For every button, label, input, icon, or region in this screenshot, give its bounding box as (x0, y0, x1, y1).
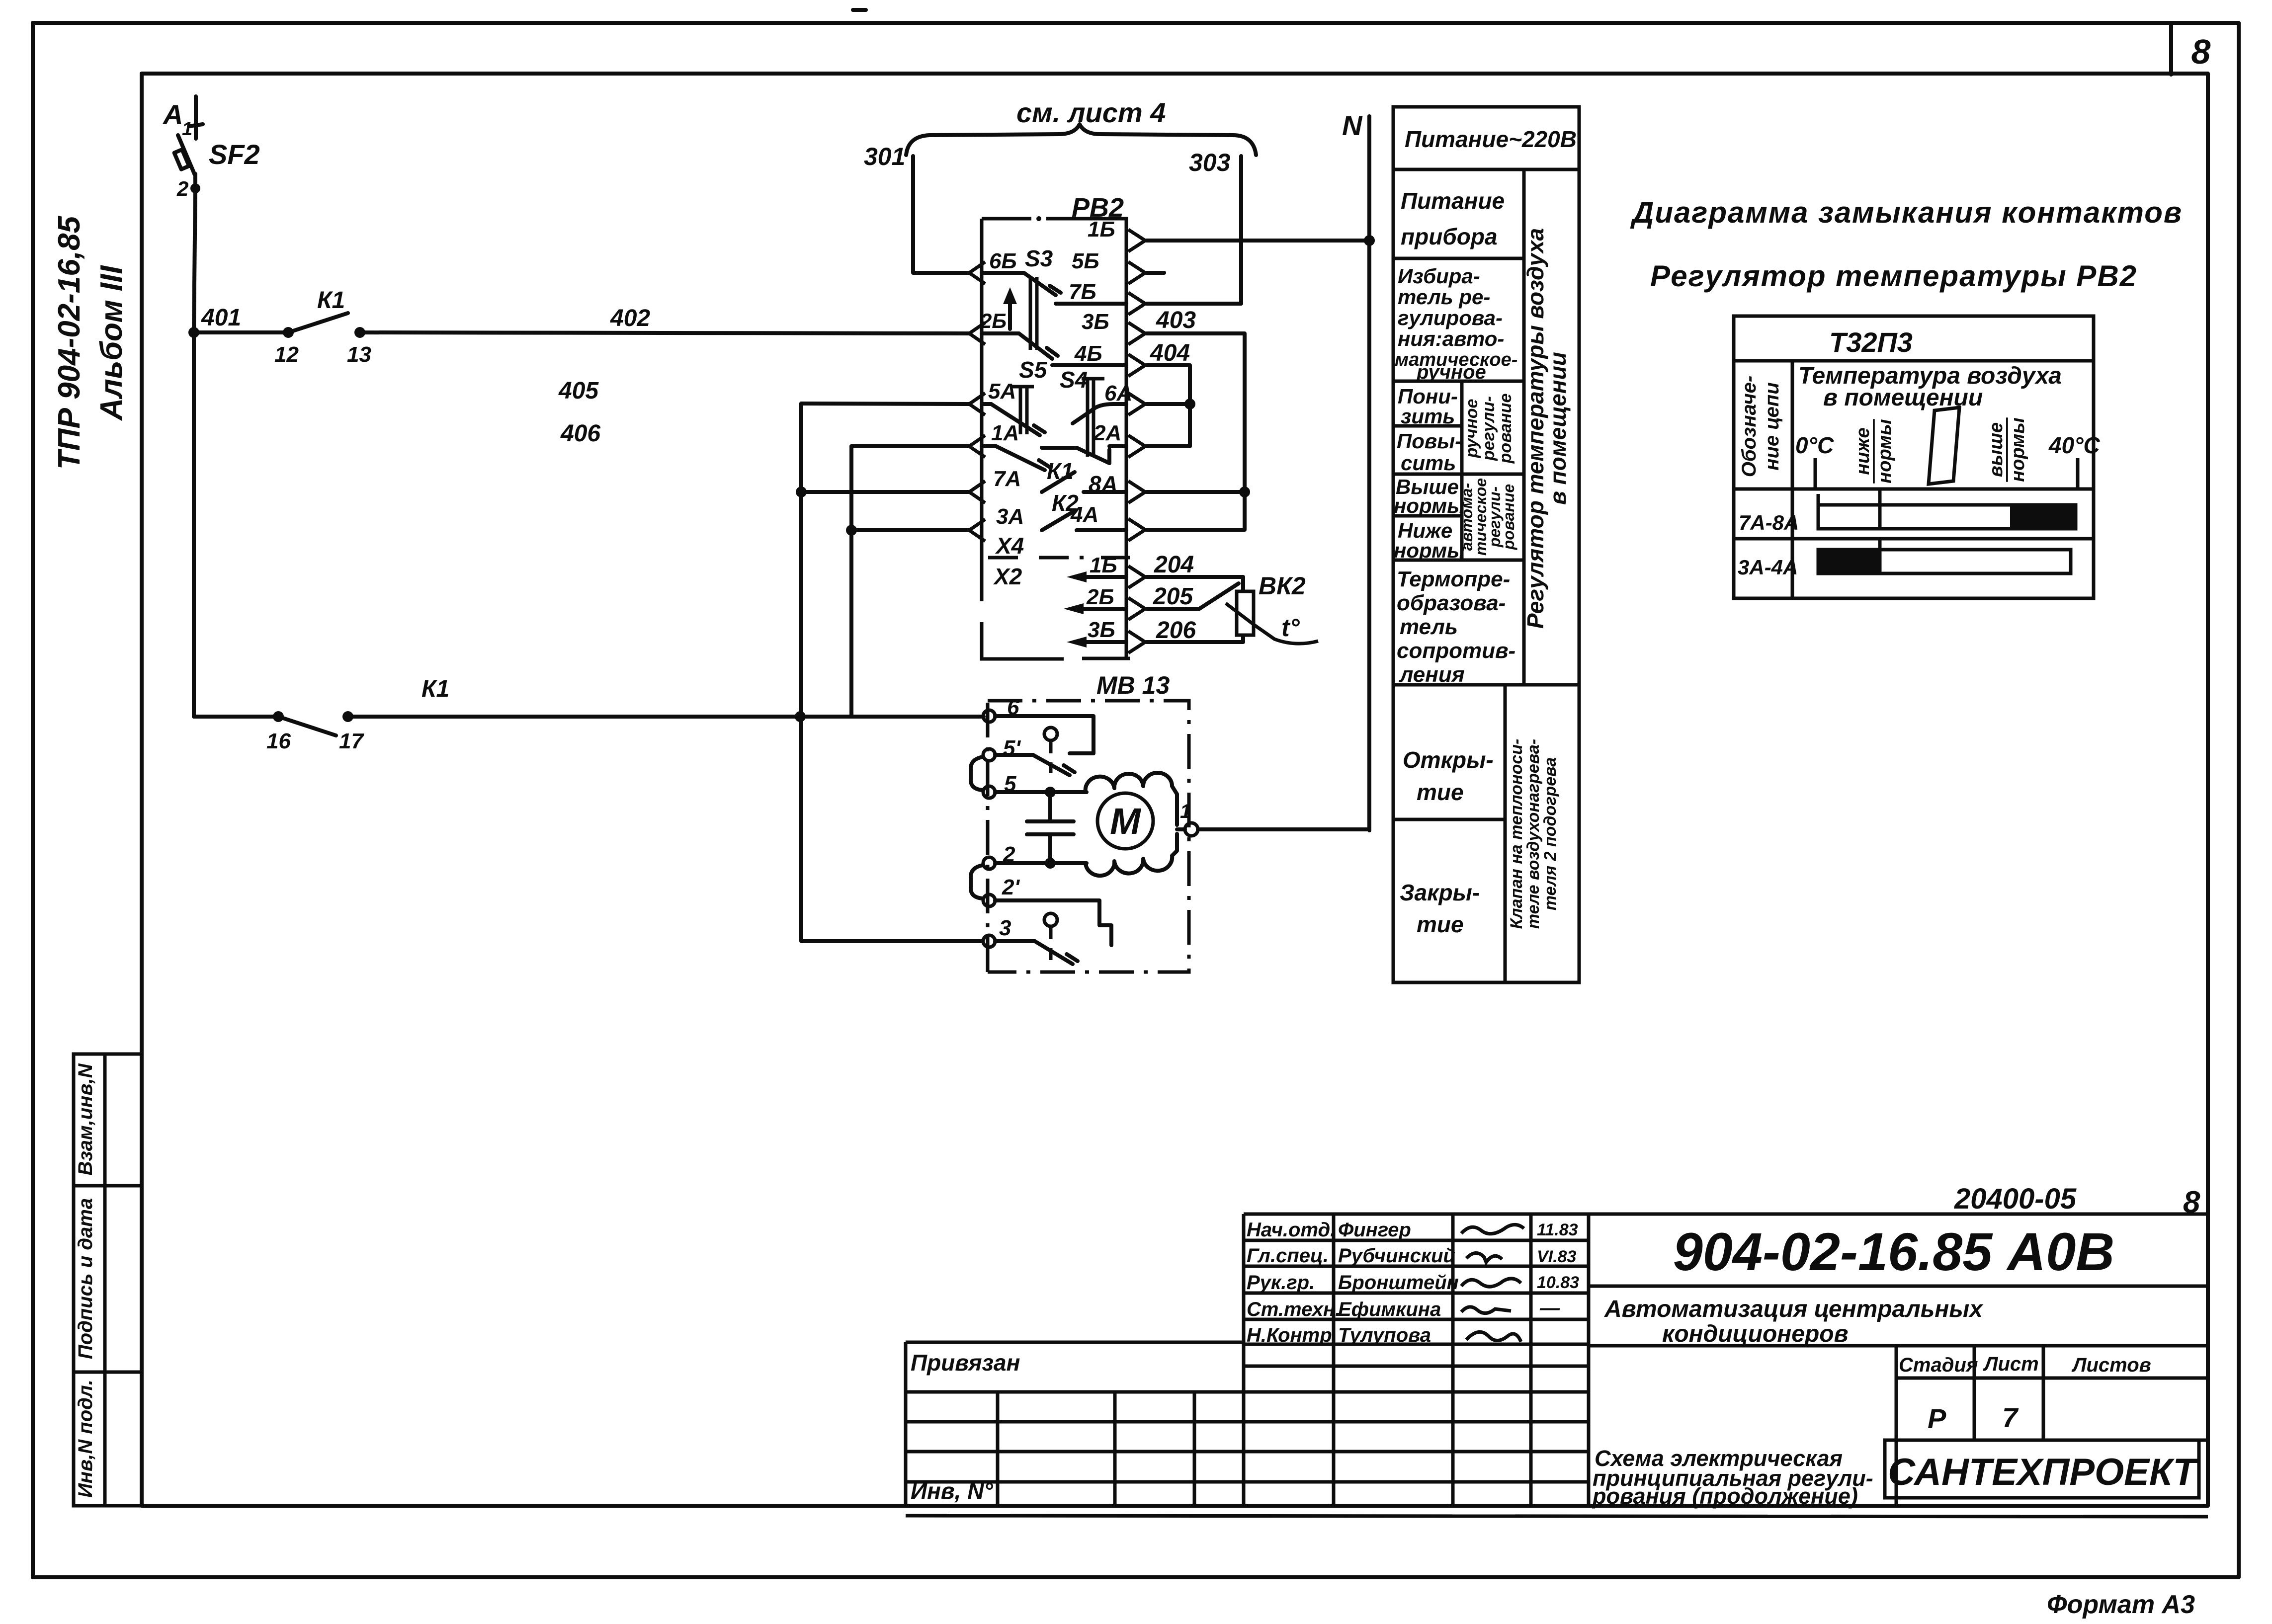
sheet number box top right (2169, 24, 2173, 75)
MV13 enclosure dash-dot (988, 701, 1189, 972)
node 16 (273, 711, 284, 722)
svg-text:2А: 2А (1093, 421, 1121, 445)
svg-text:1А: 1А (991, 421, 1019, 445)
svg-text:Взам,инв,N: Взам,инв,N (75, 1063, 96, 1175)
right side terminal arrows of P82 (1128, 230, 1145, 653)
handwritten signatures (1461, 1224, 1524, 1342)
svg-text:нормы: нормы (2008, 417, 2028, 482)
svg-text:Повы-: Повы- (1397, 429, 1462, 453)
node 12 (283, 327, 294, 338)
title block grid (906, 1214, 2208, 1517)
jumper 5'-5 (971, 757, 983, 790)
wire 7A (801, 490, 969, 494)
left side terminal arrows of P82 (969, 262, 985, 541)
brace over 301..303 (906, 124, 1256, 155)
svg-text:5А: 5А (988, 379, 1016, 404)
svg-text:6Б: 6Б (989, 249, 1017, 273)
upper switch actuator (1044, 728, 1057, 740)
svg-text:К1: К1 (421, 676, 449, 702)
svg-text:тель: тель (1400, 615, 1458, 639)
svg-text:нормы: нормы (1394, 494, 1465, 517)
svg-text:Регулятор температуры РВ2: Регулятор температуры РВ2 (1650, 259, 2137, 293)
contact K2 in P82 (1042, 511, 1126, 530)
svg-text:8: 8 (2191, 32, 2211, 71)
svg-text:ния:авто-: ния:авто- (1398, 327, 1504, 350)
svg-text:3А: 3А (996, 504, 1024, 529)
svg-text:301: 301 (864, 143, 905, 170)
svg-text:Р: Р (1928, 1403, 1946, 1434)
upper limit switch 5' contact (995, 755, 1075, 775)
svg-text:Инв, N°: Инв, N° (911, 1478, 993, 1504)
svg-text:1Б: 1Б (1088, 217, 1115, 242)
svg-text:Х2: Х2 (993, 564, 1022, 589)
wire from SF2 down to node 401 (194, 187, 195, 332)
terminal 3 (983, 935, 995, 947)
wire 401 to contact K1 (194, 330, 288, 334)
svg-text:205: 205 (1153, 583, 1193, 610)
node 401 junction (188, 327, 199, 338)
bar 3A-4A (1818, 539, 2071, 573)
svg-text:5Б: 5Б (1072, 249, 1099, 273)
svg-text:3Б: 3Б (1088, 618, 1115, 642)
left stamp table (74, 1054, 142, 1506)
svg-text:нормы: нормы (1394, 539, 1465, 562)
wire from 401 down to lower K1 branch (192, 332, 196, 717)
svg-text:Питание~220В: Питание~220В (1405, 126, 1577, 152)
svg-text:7А-8А: 7А-8А (1739, 511, 1799, 534)
svg-text:регули-: регули- (1479, 396, 1498, 461)
svg-text:2: 2 (176, 177, 188, 200)
terminal 5' (983, 749, 995, 761)
contact K1 in P82 (1042, 472, 1126, 492)
svg-text:S5: S5 (1019, 357, 1048, 383)
svg-text:МВ 13: МВ 13 (1096, 671, 1170, 699)
svg-text:17: 17 (339, 729, 364, 753)
svg-text:рование: рование (1496, 394, 1515, 464)
svg-text:Стадия: Стадия (1899, 1354, 1978, 1376)
svg-text:сопротив-: сопротив- (1397, 639, 1515, 663)
svg-text:ручное: ручное (1416, 361, 1486, 383)
svg-text:4А: 4А (1070, 502, 1098, 527)
svg-text:Гл.спец.: Гл.спец. (1247, 1245, 1329, 1267)
svg-text:303: 303 (1189, 149, 1231, 176)
svg-text:2Б: 2Б (1086, 585, 1114, 609)
wire 301 down to 6B (913, 156, 969, 273)
svg-text:теля 2 подогрева: теля 2 подогрева (1541, 757, 1560, 910)
switch S5 blade 5A (982, 404, 1045, 435)
node 17 (342, 711, 353, 722)
svg-text:S3: S3 (1025, 245, 1053, 271)
direction arrow (1008, 294, 1012, 329)
svg-text:Привязан: Привязан (911, 1350, 1020, 1376)
svg-text:904-02-16.85 А0В: 904-02-16.85 А0В (1673, 1221, 2115, 1282)
svg-text:—: — (1539, 1297, 1560, 1319)
thermistor BK2 (1226, 591, 1318, 644)
switch S5 handle (1012, 387, 1034, 434)
svg-text:16: 16 (266, 729, 291, 753)
svg-text:Клапан на теплоноси-: Клапан на теплоноси- (1507, 739, 1526, 929)
vertical net 405/7A down to node 3 (801, 404, 982, 941)
svg-text:Подпись и дата: Подпись и дата (75, 1198, 96, 1359)
svg-text:404: 404 (1150, 340, 1190, 366)
wire from 17 to motor node 6 (348, 715, 984, 719)
svg-text:6А: 6А (1104, 381, 1132, 406)
svg-text:ВК2: ВК2 (1259, 572, 1306, 600)
svg-text:Нач.отд.: Нач.отд. (1247, 1219, 1336, 1241)
svg-text:ручное: ручное (1462, 399, 1481, 459)
terminal 6 (983, 710, 995, 722)
svg-text:Рубчинский: Рубчинский (1338, 1245, 1455, 1267)
svg-text:4Б: 4Б (1074, 341, 1102, 366)
svg-text:405: 405 (558, 378, 599, 404)
switch S5 upper blade 2B-4B (982, 333, 1126, 365)
svg-text:Фингер: Фингер (1338, 1219, 1411, 1241)
svg-text:Обозначе-: Обозначе- (1738, 376, 1760, 478)
svg-text:Рук.гр.: Рук.гр. (1247, 1272, 1315, 1294)
svg-text:Избира-: Избира- (1398, 264, 1480, 288)
T32P3 diagram table (1734, 316, 2094, 598)
node 13 (354, 327, 365, 338)
svg-text:М: М (1110, 801, 1141, 842)
svg-text:кондиционеров: кондиционеров (1662, 1321, 1849, 1347)
svg-text:ТПР 904-02-16,85: ТПР 904-02-16,85 (52, 216, 86, 470)
svg-text:Формат А3: Формат А3 (2047, 1590, 2195, 1619)
wire to node 16 (194, 715, 278, 719)
svg-text:Н.Контр: Н.Контр (1247, 1324, 1332, 1346)
svg-text:Закры-: Закры- (1400, 880, 1480, 905)
terminal 2 (983, 857, 995, 869)
switch S3 blade and link (982, 273, 1126, 304)
svg-text:2': 2' (1002, 875, 1020, 899)
svg-text:403: 403 (1156, 307, 1196, 333)
svg-text:7: 7 (2002, 1402, 2019, 1433)
wire 404 (1146, 365, 1190, 446)
svg-text:10.83: 10.83 (1537, 1273, 1579, 1292)
svg-text:401: 401 (201, 305, 241, 331)
svg-text:САНТЕХПРОЕКТ: САНТЕХПРОЕКТ (1888, 1451, 2198, 1493)
right signal table (1393, 107, 1579, 982)
wire 8A junction (1146, 492, 1245, 530)
contact K1 lower blade (278, 717, 336, 735)
wire 5 to winding (995, 790, 1087, 794)
svg-text:Автоматизация центральных: Автоматизация центральных (1604, 1296, 1984, 1322)
svg-text:ние цепи: ние цепи (1761, 382, 1783, 470)
svg-text:Диаграмма замыкания контактов: Диаграмма замыкания контактов (1630, 196, 2183, 229)
svg-text:см. лист 4: см. лист 4 (1016, 97, 1166, 128)
svg-text:40°С: 40°С (2048, 432, 2101, 458)
svg-text:7А: 7А (993, 467, 1021, 491)
svg-text:тель ре-: тель ре- (1398, 285, 1490, 309)
svg-text:тие: тие (1417, 779, 1464, 805)
svg-text:20400-05: 20400-05 (1954, 1183, 2077, 1215)
svg-text:гулирова-: гулирова- (1398, 306, 1503, 329)
switch S4 handle (1082, 379, 1104, 457)
svg-text:ниже: ниже (1852, 427, 1873, 475)
svg-text:ления: ления (1399, 662, 1465, 687)
wire 403 (1146, 333, 1245, 492)
svg-text:К1: К1 (317, 287, 345, 314)
switch S4 blade 2A (1042, 446, 1126, 463)
svg-text:2Б: 2Б (980, 309, 1007, 332)
svg-text:сить: сить (1401, 451, 1456, 475)
motor windings upper (1086, 773, 1177, 825)
N line vertical (1367, 116, 1371, 830)
bar 7A-8A (1818, 489, 2076, 529)
wire node1 to N (1198, 827, 1369, 831)
svg-text:прибора: прибора (1401, 224, 1498, 249)
terminal 5 (983, 786, 995, 798)
svg-text:Бронштейн: Бронштейн (1338, 1272, 1459, 1294)
mechanical link S3-S5 (1030, 277, 1037, 350)
svg-text:402: 402 (610, 305, 650, 331)
terminal 1 (1177, 827, 1185, 831)
svg-text:13: 13 (347, 342, 371, 367)
terminal 2' (983, 894, 995, 906)
wire stub at A1 (189, 96, 203, 139)
svg-text:выше: выше (1986, 422, 2007, 477)
svg-text:Ефимкина: Ефимкина (1338, 1299, 1441, 1320)
svg-text:Т32П3: Т32П3 (1829, 326, 1913, 358)
vertical net 406/3A (849, 446, 853, 717)
svg-text:SF2: SF2 (209, 139, 260, 170)
svg-text:Ст.техн.: Ст.техн. (1247, 1299, 1341, 1320)
svg-text:N: N (1342, 110, 1363, 141)
lower switch actuator (1044, 913, 1057, 926)
svg-text:Питание: Питание (1401, 188, 1505, 214)
svg-text:Откры-: Откры- (1403, 747, 1494, 773)
svg-text:204: 204 (1154, 552, 1194, 578)
lower limit switch frame from 2' (995, 900, 1111, 945)
svg-text:11.83: 11.83 (1537, 1220, 1578, 1239)
wire 2 to winding (995, 861, 1087, 865)
connector row 3B to 206 (1067, 637, 1087, 648)
connector row 2B to 205 (1064, 603, 1084, 614)
setpoint parallelogram (1929, 407, 1959, 484)
svg-text:7Б: 7Б (1069, 280, 1096, 304)
svg-text:Альбом III: Альбом III (94, 265, 129, 421)
switch S4 blade 6A (1073, 404, 1126, 423)
svg-text:3Б: 3Б (1082, 310, 1109, 334)
svg-text:тие: тие (1417, 911, 1464, 937)
svg-text:3А-4А: 3А-4А (1738, 556, 1798, 579)
motor windings lower (1057, 834, 1177, 876)
wire 303 down to 7B (1146, 156, 1241, 304)
svg-text:зить: зить (1401, 405, 1455, 428)
contact K1 upper blade (288, 313, 348, 332)
wire 406 (851, 444, 969, 448)
connector row 1B to 204 (1067, 571, 1087, 582)
wire 405 (801, 404, 969, 404)
svg-text:1: 1 (1180, 801, 1191, 822)
wire 1B to N (1146, 239, 1369, 243)
wire 3A (851, 528, 969, 532)
motor M (1097, 793, 1153, 849)
switch S5 blade 1A (982, 446, 1050, 470)
svg-text:Х4: Х4 (995, 533, 1024, 559)
svg-text:206: 206 (1156, 617, 1196, 644)
svg-text:в помещении: в помещении (1545, 352, 1571, 505)
svg-text:1: 1 (182, 119, 192, 140)
svg-text:VI.83: VI.83 (1537, 1247, 1576, 1266)
svg-text:теле воздухонагрева-: теле воздухонагрева- (1524, 739, 1543, 929)
svg-text:1Б: 1Б (1090, 553, 1117, 577)
scan speck (851, 8, 868, 12)
svg-text:рования (продолжение): рования (продолжение) (1592, 1483, 1858, 1509)
svg-text:3: 3 (999, 916, 1011, 940)
capacitor C (1027, 792, 1074, 863)
svg-text:0°С: 0°С (1795, 432, 1834, 458)
org name box (1885, 1440, 2199, 1498)
junction on wire to node 6 (795, 711, 806, 722)
circuit breaker SF2 (174, 135, 195, 187)
wire 402 (360, 332, 969, 333)
svg-text:нормы: нормы (1874, 419, 1895, 483)
svg-text:Листов: Листов (2071, 1354, 2151, 1376)
wire 5B stub (1146, 271, 1164, 275)
upper limit switch frame from 6 (995, 716, 1094, 753)
junction 6A on 404 net (1146, 402, 1190, 406)
svg-text:Термопре-: Термопре- (1397, 567, 1510, 591)
svg-text:t°: t° (1281, 614, 1300, 642)
svg-text:рование: рование (1500, 484, 1517, 550)
svg-text:А: А (162, 99, 183, 130)
jumper 2-2' (971, 865, 983, 898)
lower limit switch 3 contact (995, 941, 1078, 964)
junction of 1B wire on N line (1364, 235, 1375, 246)
node 2 (190, 183, 200, 193)
svg-text:Тулупова: Тулупова (1338, 1324, 1431, 1346)
svg-text:Инв,N подл.: Инв,N подл. (75, 1380, 96, 1498)
svg-text:12: 12 (274, 342, 299, 367)
svg-text:Лист: Лист (1983, 1353, 2039, 1375)
svg-text:406: 406 (560, 420, 600, 447)
svg-text:образова-: образова- (1397, 591, 1506, 615)
